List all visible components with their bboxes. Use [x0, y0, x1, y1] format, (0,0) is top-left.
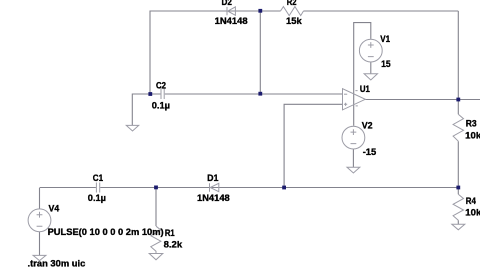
svg-text:15: 15 [381, 59, 391, 70]
svg-text:.tran 30m uic: .tran 30m uic [28, 259, 86, 270]
svg-text:1N4148: 1N4148 [197, 193, 230, 204]
svg-text:8.2k: 8.2k [164, 239, 183, 250]
svg-text:R1: R1 [165, 228, 175, 239]
svg-text:R4: R4 [466, 196, 477, 207]
svg-text:-15: -15 [363, 147, 377, 158]
svg-text:D1: D1 [207, 173, 219, 184]
svg-text:R2: R2 [287, 0, 297, 8]
svg-text:PULSE(0 10 0 0 0 2m 10m): PULSE(0 10 0 0 0 2m 10m) [48, 227, 164, 238]
svg-text:10k: 10k [465, 130, 480, 141]
svg-text:1N4148: 1N4148 [215, 16, 248, 27]
svg-text:0.1µ: 0.1µ [152, 101, 170, 112]
svg-text:0.1µ: 0.1µ [88, 193, 106, 204]
svg-text:C1: C1 [93, 173, 104, 184]
svg-text:15k: 15k [286, 16, 302, 27]
svg-text:D2: D2 [222, 0, 232, 8]
svg-text:C2: C2 [156, 81, 166, 92]
svg-text:V1: V1 [380, 34, 390, 45]
svg-text:R3: R3 [466, 118, 477, 129]
svg-text:U1: U1 [360, 84, 371, 95]
svg-text:V2: V2 [362, 121, 373, 132]
svg-text:V4: V4 [49, 203, 60, 214]
svg-text:10k: 10k [465, 208, 480, 219]
